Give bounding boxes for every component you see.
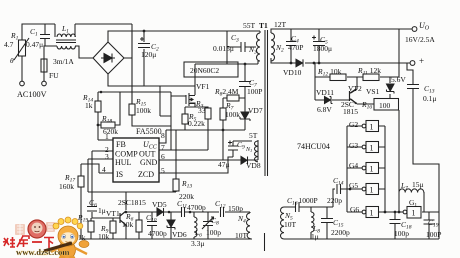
svg-text:AC100V: AC100V <box>17 90 47 99</box>
svg-text:VS1: VS1 <box>366 87 380 96</box>
capacitor C7 <box>239 82 251 87</box>
wire: R18 leads <box>98 92 120 125</box>
svg-text:IS: IS <box>116 170 123 179</box>
wire: N2 bottom to rectifier line <box>271 58 296 63</box>
svg-text:12T: 12T <box>274 20 287 29</box>
resistor R12 <box>330 74 346 81</box>
svg-text:2200p: 2200p <box>331 228 350 237</box>
svg-text:3: 3 <box>105 152 109 161</box>
resistor R11 <box>363 74 379 81</box>
capacitor C18 <box>390 220 401 224</box>
box 20N60C2 <box>184 62 238 77</box>
svg-text:+: + <box>419 56 424 66</box>
resistor R5 <box>182 114 188 124</box>
svg-text:10T: 10T <box>235 231 248 240</box>
svg-text:G5: G5 <box>349 181 358 190</box>
capacitor C10 <box>147 222 157 226</box>
svg-text:20N60C2: 20N60C2 <box>190 66 219 75</box>
svg-text:4.7: 4.7 <box>4 40 14 49</box>
svg-text:5T: 5T <box>249 131 258 140</box>
wire: C2 vertical <box>143 31 145 86</box>
capacitor C13 <box>407 85 419 89</box>
transformer T1 core <box>265 30 268 176</box>
svg-text:1: 1 <box>370 123 374 132</box>
svg-text:0.015μ: 0.015μ <box>213 44 234 53</box>
svg-text:2SC1815: 2SC1815 <box>118 198 146 207</box>
svg-text:VT2: VT2 <box>348 84 362 93</box>
svg-text:120μ: 120μ <box>141 50 156 59</box>
watermark text yi <box>32 241 42 243</box>
svg-text:G6: G6 <box>350 205 359 214</box>
winding N4 <box>247 213 251 238</box>
svg-text:VF1: VF1 <box>196 82 210 91</box>
svg-text:θ: θ <box>10 56 14 65</box>
resistor R15 <box>129 104 135 115</box>
zener VS1 <box>387 84 395 94</box>
wire: N3 bottom to drain node <box>195 61 258 95</box>
wire: AC line lower <box>44 46 93 59</box>
svg-text:VD5: VD5 <box>152 200 167 209</box>
wire: OUT pin7 lead <box>159 119 208 150</box>
capacitor C2 electrolytic <box>138 37 150 48</box>
svg-text:1815: 1815 <box>343 107 358 116</box>
wire: R14 R15 column <box>98 31 171 140</box>
bridge rectifier <box>93 42 124 74</box>
capacitor C15 <box>321 219 333 223</box>
variable capacitor C8 <box>202 217 214 229</box>
wire: C7 R8 VD7 branch <box>244 64 246 130</box>
svg-text:5: 5 <box>161 166 165 175</box>
capacitor C5 electrolytic <box>312 36 325 46</box>
transformer winding N3 <box>257 31 260 61</box>
svg-text:G3: G3 <box>349 141 358 150</box>
wire: oscillator tank top <box>284 206 333 208</box>
svg-text:160k: 160k <box>59 182 74 191</box>
svg-text:1μ: 1μ <box>98 206 106 215</box>
wire: Ucc pin8 lead <box>159 130 166 143</box>
svg-text:5.6V: 5.6V <box>391 75 406 84</box>
wire: FB pin1 lead <box>98 139 113 141</box>
svg-text:7: 7 <box>161 143 165 152</box>
svg-text:HUL: HUL <box>115 158 132 167</box>
resistor R7 <box>220 108 226 120</box>
svg-text:470P: 470P <box>288 43 303 52</box>
svg-text:1: 1 <box>370 144 374 153</box>
winding N1 (5T) <box>255 141 259 162</box>
wire: C1 branch <box>44 24 46 46</box>
gate symbols "1" <box>370 123 416 218</box>
svg-text:3.3μ: 3.3μ <box>191 239 204 248</box>
svg-text:GND: GND <box>140 158 158 167</box>
wire: VD11 row to VT2 base <box>315 99 349 101</box>
svg-text:1μ: 1μ <box>311 232 319 241</box>
svg-text:4700p: 4700p <box>187 203 206 212</box>
gate G1 <box>403 207 421 219</box>
IC U1 FA5500 <box>113 138 159 182</box>
wire: C9 and N1 links <box>233 140 258 160</box>
svg-text:C161000P: C161000P <box>287 196 318 207</box>
svg-text:3m/1A: 3m/1A <box>53 57 74 66</box>
svg-text:R1210k: R1210k <box>317 67 342 78</box>
inductor L8 <box>311 212 314 232</box>
wire: VD6 L6 C8 drops <box>171 212 208 239</box>
winding N5 <box>281 207 285 239</box>
capacitor C14 <box>337 184 341 194</box>
wire: N5 winding ends <box>283 207 285 239</box>
resistor R9 <box>110 221 116 233</box>
diode VD5 <box>157 208 164 216</box>
resistor R16 with value box <box>374 99 399 111</box>
wire: VS1 branch <box>389 77 391 98</box>
svg-text:FA5500: FA5500 <box>136 127 162 136</box>
diode VD10 <box>296 59 303 66</box>
wire: C15 drop <box>326 207 328 239</box>
svg-text:VD7: VD7 <box>248 106 263 115</box>
svg-text:100: 100 <box>379 101 391 110</box>
watermark text ku <box>17 236 29 247</box>
wire: VT1 area <box>91 192 157 239</box>
svg-text:100k: 100k <box>225 110 240 119</box>
fuse FU <box>41 59 47 72</box>
wire: C13 branch from plus rail <box>407 63 439 239</box>
svg-text:1k: 1k <box>85 101 93 110</box>
output terminal Uo <box>412 27 417 32</box>
svg-text:4700p: 4700p <box>148 229 167 238</box>
svg-text:0.22k: 0.22k <box>188 119 205 128</box>
svg-text:6: 6 <box>161 152 165 161</box>
wire: hex inverter supply column <box>398 110 400 213</box>
svg-text:15μ: 15μ <box>412 180 424 189</box>
svg-text:10k: 10k <box>122 220 134 229</box>
wire: GND pin6 lead <box>159 159 240 161</box>
watermark stamp circle <box>28 220 46 238</box>
svg-text:4: 4 <box>102 165 106 174</box>
svg-text:VD10: VD10 <box>283 68 302 77</box>
svg-text:0.1μ: 0.1μ <box>423 94 436 103</box>
wire: bridge AC2 to rail corner <box>124 24 132 104</box>
transistor VT2 <box>350 89 357 104</box>
wire: gate output bus <box>378 126 385 212</box>
zener VD7 <box>240 112 250 121</box>
wire: feedback divider column <box>315 29 399 100</box>
wire: snubber drop and y64 link <box>195 31 258 64</box>
svg-text:1: 1 <box>370 165 374 174</box>
svg-text:0.47μ: 0.47μ <box>26 40 43 49</box>
svg-text:FB: FB <box>116 140 126 149</box>
svg-text:www.dzsc.com: www.dzsc.com <box>16 247 70 257</box>
wire: COMP pin2 lead <box>92 151 113 206</box>
AC input terminals <box>20 81 47 86</box>
wire: secondary bottom rail <box>284 238 439 240</box>
output terminal plus <box>410 61 415 66</box>
wire: rectifier output line to plus terminal <box>305 62 410 64</box>
wire: secondary top rail to Uo <box>271 29 412 33</box>
wire: HUL pin3 lead <box>88 159 113 192</box>
inductor L1 (common-mode choke) <box>55 24 76 49</box>
svg-text:55T: 55T <box>243 21 256 30</box>
wire: IS pin4 lead <box>81 164 113 176</box>
svg-text:N1: N1 <box>245 147 252 153</box>
capacitor C4 <box>286 42 296 46</box>
wire: C4 branch <box>290 29 292 63</box>
resistor R14 <box>95 101 101 112</box>
watermark text xia <box>44 238 54 249</box>
svg-text:VT1: VT1 <box>106 209 120 218</box>
svg-text:1: 1 <box>105 132 109 141</box>
wire: gate input bus <box>347 126 362 212</box>
svg-text:47μ: 47μ <box>218 160 230 169</box>
resistor R8 <box>227 95 239 101</box>
wire: L8 drop <box>310 207 312 239</box>
capacitor C11 <box>182 207 185 217</box>
svg-text:100P: 100P <box>247 87 262 96</box>
capacitor C3 <box>241 42 245 52</box>
svg-text:100p: 100p <box>394 229 409 238</box>
svg-text:100P: 100P <box>426 230 441 239</box>
resistor R3 <box>205 108 211 119</box>
svg-text:VD11: VD11 <box>316 88 334 97</box>
capacitor C16 <box>296 202 300 212</box>
svg-text:VD6: VD6 <box>172 230 187 239</box>
wire: C3 leads <box>227 46 256 48</box>
watermark mascot <box>44 217 89 258</box>
svg-text:74HCU04: 74HCU04 <box>297 142 330 151</box>
mosfet VF1 <box>186 93 195 106</box>
resistor R17 <box>78 176 84 187</box>
svg-text:10T: 10T <box>284 220 297 229</box>
transistor VT1 <box>120 211 126 225</box>
capacitor C1 <box>40 35 50 39</box>
svg-text:T1: T1 <box>259 21 268 30</box>
svg-text:G2: G2 <box>349 120 358 129</box>
wire: C18 drop <box>394 212 396 239</box>
wire: sense rail y130 <box>166 130 245 179</box>
wire: primary ground rail y86 <box>108 74 195 86</box>
svg-text:16V/2.5A: 16V/2.5A <box>405 35 435 44</box>
capacitor C6 <box>87 207 97 212</box>
wire: R17 to ground <box>80 187 82 239</box>
wire: C5 branch <box>318 29 320 63</box>
gate G4 <box>362 163 378 174</box>
resistor R6 <box>136 220 142 232</box>
wire: R8 left lead and R7 column <box>223 98 245 160</box>
wire: C14 link <box>333 189 347 207</box>
wire: AC line top rail <box>22 24 132 40</box>
watermark faded glyphs <box>15 222 55 235</box>
wire: VD8 to gnd line <box>240 159 252 161</box>
svg-text:R1112k: R1112k <box>357 66 381 77</box>
transformer winding N2 <box>271 33 275 61</box>
wire: G1 output <box>422 212 439 239</box>
wire: bottom rail primary <box>81 238 252 240</box>
svg-text:150p: 150p <box>228 204 243 213</box>
isolation barrier mark <box>264 233 266 251</box>
svg-text:FU: FU <box>49 71 59 80</box>
diode VD8 <box>241 157 248 165</box>
svg-text:ZCD: ZCD <box>138 170 154 179</box>
wire: L7 feedback loop <box>423 192 425 212</box>
wire: VF1 source to R5 and R3 <box>185 103 208 130</box>
wire: R13 bottom to y192 <box>88 191 176 192</box>
svg-text:1: 1 <box>412 209 416 218</box>
wire: R6 C10 drops <box>139 212 152 239</box>
wire: AC terminal leads <box>22 56 44 81</box>
inductor L7 <box>399 189 424 193</box>
resistor R13 <box>173 179 179 191</box>
capacitor C12 <box>221 207 224 217</box>
wire: VT2 collector and emitter <box>351 77 374 104</box>
gate G6 <box>362 207 378 218</box>
svg-text:10k: 10k <box>98 232 110 241</box>
svg-text:1: 1 <box>370 209 374 218</box>
svg-text:G4: G4 <box>349 161 358 170</box>
svg-text:100p: 100p <box>206 228 221 237</box>
svg-text:VD8: VD8 <box>246 161 261 170</box>
wire: VF1 gate network stairs <box>98 86 186 150</box>
gate G2 <box>362 121 378 132</box>
resistor R1 (thermistor) <box>14 38 29 60</box>
zener VD6 <box>167 220 175 230</box>
resistor R18 <box>101 122 115 128</box>
svg-text:6.8V: 6.8V <box>317 105 332 114</box>
svg-text:33: 33 <box>198 106 206 115</box>
zener VD11 <box>325 97 333 104</box>
wire: bridge DC+ to rail <box>108 31 260 42</box>
wire: N4 winding ends <box>249 212 251 239</box>
svg-text:8: 8 <box>161 131 165 140</box>
svg-text:1800μ: 1800μ <box>313 44 332 53</box>
wire: ZCD pin5 lead <box>159 157 233 173</box>
watermark text wei <box>3 237 15 247</box>
svg-text:100k: 100k <box>136 106 151 115</box>
gate G3 <box>362 142 378 153</box>
capacitor C9 electrolytic <box>228 141 238 151</box>
svg-text:220p: 220p <box>327 196 342 205</box>
wire: G6 output to G1 input <box>378 211 403 213</box>
resistor R19 <box>88 221 94 232</box>
wire: VD5 C11 C12 row <box>164 211 250 213</box>
IC pin names <box>115 140 158 179</box>
gate G5 <box>362 184 378 195</box>
capacitor C19 <box>424 220 435 224</box>
svg-text:1: 1 <box>370 186 374 195</box>
svg-text:R82.4M: R82.4M <box>214 87 239 98</box>
inductor L6 <box>194 217 197 237</box>
